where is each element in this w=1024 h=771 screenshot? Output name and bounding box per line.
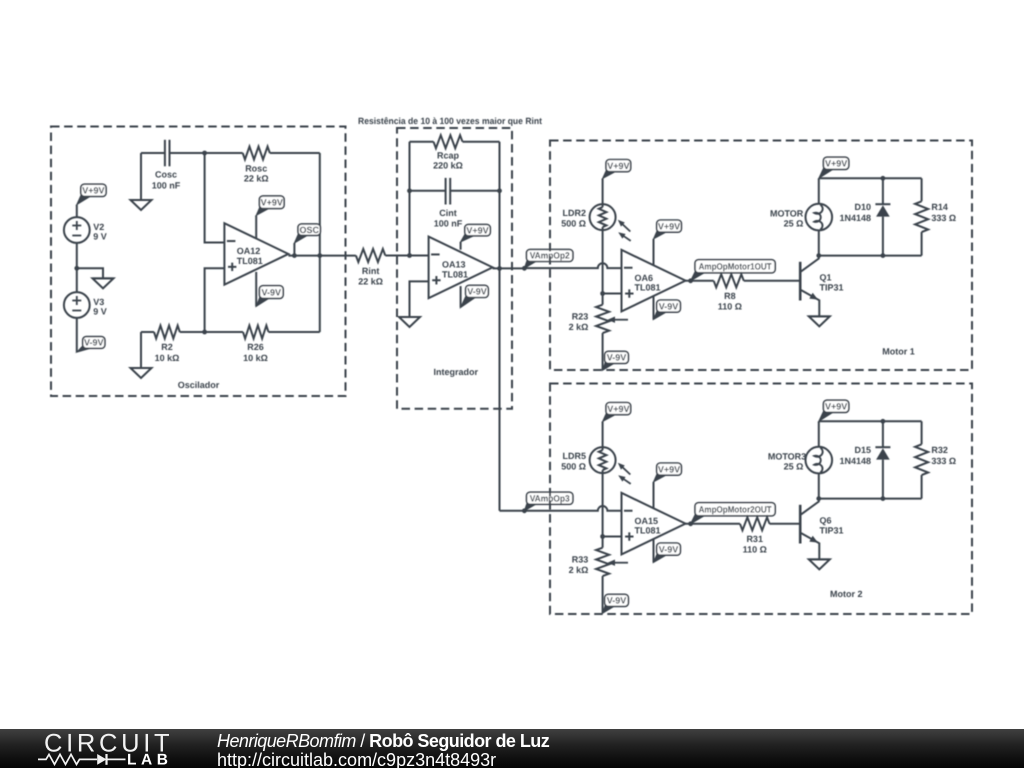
svg-text:R32: R32 <box>931 445 948 455</box>
svg-text:R8: R8 <box>724 291 736 301</box>
node junction <box>407 188 412 193</box>
svg-text:V-9V: V-9V <box>84 338 104 348</box>
svg-text:10 kΩ: 10 kΩ <box>155 353 180 363</box>
svg-text:V+9V: V+9V <box>82 186 104 196</box>
svg-text:LAB: LAB <box>127 752 173 769</box>
wire <box>76 318 78 352</box>
wire <box>140 153 142 200</box>
label D10 1N4148 <box>839 202 871 223</box>
wire <box>205 153 225 243</box>
svg-text:500 Ω: 500 Ω <box>561 461 586 471</box>
resistor Rint <box>356 249 385 262</box>
op-amp OA12 V- pin <box>255 272 257 307</box>
op-amp OA15 <box>622 493 686 555</box>
wire <box>602 576 604 613</box>
wire <box>921 475 923 499</box>
node junction <box>881 253 886 258</box>
net label V+9V (LDR5) <box>603 403 631 422</box>
svg-text:OA6: OA6 <box>635 273 654 283</box>
node junction <box>881 419 886 424</box>
op-amp OA13 V- pin <box>460 286 462 307</box>
capacitor Cosc <box>165 140 170 167</box>
motor MOTOR <box>806 204 833 231</box>
label R31 110 <box>743 534 767 554</box>
wire <box>141 331 154 333</box>
net label V-9V (OA6) <box>654 300 681 320</box>
net label V+9V (V2) <box>77 184 106 204</box>
svg-text:2 kΩ: 2 kΩ <box>569 322 589 332</box>
label Q6 TIP31 <box>820 515 844 535</box>
svg-text:V-9V: V-9V <box>607 353 627 363</box>
svg-text:1N4148: 1N4148 <box>839 213 871 223</box>
wire <box>602 422 604 448</box>
net label V+9V (motor2) <box>819 400 849 421</box>
wire <box>818 473 820 498</box>
node junction <box>522 508 527 513</box>
svg-text:V+9V: V+9V <box>658 221 680 231</box>
wire <box>385 255 428 257</box>
svg-text:R23: R23 <box>572 312 589 322</box>
node junction <box>407 253 412 258</box>
svg-text:V-9V: V-9V <box>262 287 282 297</box>
wire (down to motor2) <box>499 268 501 510</box>
svg-text:R14: R14 <box>931 202 948 212</box>
net label V+9V (OA13) <box>461 224 491 242</box>
wire <box>493 267 525 269</box>
wire <box>602 230 604 293</box>
label Motor 2 <box>830 589 863 599</box>
wire <box>270 152 320 154</box>
wire <box>818 178 820 204</box>
wire <box>602 473 604 536</box>
label Rcap 220k <box>433 150 463 170</box>
net label V-9V (V3) <box>77 337 105 353</box>
net label V-9V (OA15) <box>654 543 681 563</box>
net label V+9V (motor1) <box>819 157 849 178</box>
label LDR2 500 <box>561 208 586 228</box>
wire <box>818 421 820 447</box>
op-amp OA13 V+ pin <box>460 242 462 250</box>
svg-text:Rint: Rint <box>362 266 380 276</box>
wire <box>76 268 78 292</box>
wire <box>269 331 320 333</box>
svg-text:R2: R2 <box>161 342 173 352</box>
transistor Q6 TIP31 <box>800 499 819 560</box>
svg-text:D10: D10 <box>854 202 871 212</box>
label R26 10k <box>243 342 268 363</box>
wire <box>882 421 884 447</box>
wire (motor2 top rail) <box>819 420 922 422</box>
label R33 2k <box>569 555 589 575</box>
svg-text:110 Ω: 110 Ω <box>743 544 767 554</box>
svg-text:V+9V: V+9V <box>261 197 283 207</box>
svg-text:LDR2: LDR2 <box>562 208 586 218</box>
wire <box>744 280 799 282</box>
potentiometer R33 <box>596 548 609 576</box>
label Q1 TIP31 <box>820 272 844 292</box>
transistor Q1 TIP31 <box>800 256 819 317</box>
svg-text:OA12: OA12 <box>237 246 261 256</box>
svg-text:25 Ω: 25 Ω <box>784 219 804 229</box>
net label V+9V (OA12) <box>256 196 284 216</box>
op-amp OA13 <box>429 237 493 299</box>
motor MOTOR3 <box>806 447 833 474</box>
svg-text:Rosc: Rosc <box>245 163 267 173</box>
node junction <box>317 253 322 258</box>
svg-text:Motor 1: Motor 1 <box>882 346 915 356</box>
svg-text:R31: R31 <box>746 534 763 544</box>
wire <box>180 331 205 333</box>
svg-text:AmpOpMotor1OUT: AmpOpMotor1OUT <box>699 261 772 271</box>
svg-text:TL081: TL081 <box>237 256 263 266</box>
wire (VAmpOp3 net) <box>500 506 622 511</box>
label R23 2k <box>569 312 589 332</box>
svg-text:9 V: 9 V <box>93 306 107 316</box>
resistor R26 <box>243 326 268 339</box>
wire <box>319 256 321 332</box>
svg-text:OSC: OSC <box>299 225 319 235</box>
wire (VAmpOp2 net) <box>524 263 621 268</box>
label D15 1N4148 <box>839 445 871 466</box>
net label V+9V (OA15) <box>654 463 682 482</box>
svg-text:OA13: OA13 <box>442 260 466 270</box>
wire (right rail) <box>499 142 501 269</box>
potentiometer R23 <box>596 305 609 333</box>
label V2 9V <box>93 222 107 241</box>
node junction (OA13 out) <box>497 266 502 271</box>
wire <box>76 205 78 218</box>
svg-text:V-9V: V-9V <box>467 287 487 297</box>
net label AmpOpMotor2OUT <box>691 503 776 524</box>
potentiometer R33 arrow <box>608 560 629 566</box>
wire (motor2 bottom rail) <box>819 498 922 500</box>
net label V-9V (R23) <box>603 351 629 370</box>
wire <box>882 217 884 256</box>
ground (OA13 +) <box>399 317 420 327</box>
label Oscilador <box>178 380 220 390</box>
ground (Q6 emitter) <box>809 559 830 569</box>
motor1 block dashed box <box>550 141 972 371</box>
wire (OA15 out) <box>686 523 741 525</box>
wire <box>141 152 165 154</box>
label Cosc 100nF <box>152 170 181 191</box>
svg-text:Rcap: Rcap <box>437 150 460 160</box>
wire <box>921 421 923 444</box>
svg-text:MOTOR3: MOTOR3 <box>768 452 806 462</box>
wire <box>77 268 103 278</box>
svg-text:333 Ω: 333 Ω <box>931 456 956 466</box>
net label OSC <box>294 224 320 243</box>
node junction <box>688 521 693 526</box>
svg-text:Resistência de 10 à 100 vezes: Resistência de 10 à 100 vezes maior que … <box>358 116 542 126</box>
svg-text:22 kΩ: 22 kΩ <box>358 277 383 287</box>
CircuitLab logo resistor-diode glyph <box>38 754 97 764</box>
motor2 block dashed box <box>550 384 972 615</box>
net label V+9V (LDR2) <box>603 160 631 179</box>
svg-text:V-9V: V-9V <box>607 596 627 606</box>
ground (Q1 emitter) <box>809 316 830 326</box>
svg-text:500 Ω: 500 Ω <box>561 218 586 228</box>
svg-text:TIP31: TIP31 <box>820 526 844 536</box>
resistor R14 <box>915 201 928 232</box>
label Integrador <box>434 367 479 377</box>
svg-text:Motor 2: Motor 2 <box>830 589 863 599</box>
label Cint 100nF <box>434 208 463 228</box>
node junction <box>497 188 502 193</box>
label Rosc 22k <box>244 163 269 183</box>
wire (OA12 output) <box>288 255 356 257</box>
svg-text:AmpOpMotor2OUT: AmpOpMotor2OUT <box>699 504 772 514</box>
capacitor Cint <box>446 178 451 205</box>
voltage source V2 <box>64 217 90 243</box>
svg-text:100 nF: 100 nF <box>152 180 181 190</box>
node junction <box>881 496 886 501</box>
wire (OA13 + input) <box>410 281 429 317</box>
ground (R2) <box>131 368 152 378</box>
diode D15 1N4148 <box>875 447 890 459</box>
wire <box>602 537 604 548</box>
net label V-9V (OA13) <box>461 285 489 307</box>
net label V-9V (OA12) <box>256 286 283 307</box>
svg-text:V+9V: V+9V <box>607 161 629 171</box>
svg-text:100 nF: 100 nF <box>434 219 463 229</box>
wire (motor1 bottom rail) <box>819 255 922 257</box>
svg-text:22 kΩ: 22 kΩ <box>244 174 269 184</box>
resistor Rcap <box>434 135 463 148</box>
op-amp OA12 <box>224 223 288 285</box>
svg-text:LDR5: LDR5 <box>562 451 586 461</box>
svg-text:V+9V: V+9V <box>658 464 680 474</box>
label V3 9V <box>93 297 107 316</box>
svg-text:TIP31: TIP31 <box>820 283 844 293</box>
wire <box>463 141 500 143</box>
node junction <box>600 291 605 296</box>
resistor R2 <box>154 326 180 339</box>
svg-text:25 Ω: 25 Ω <box>784 462 804 472</box>
ground (Cosc) <box>131 200 152 210</box>
wire (left rail) <box>409 142 411 256</box>
node junction <box>292 253 297 258</box>
wire <box>410 141 434 143</box>
wire <box>602 179 604 205</box>
node junction <box>202 330 207 335</box>
wire <box>818 230 820 255</box>
node junction <box>688 278 693 283</box>
svg-text:V+9V: V+9V <box>607 404 629 414</box>
label R2 10k <box>155 342 180 363</box>
svg-text:MOTOR: MOTOR <box>770 209 804 219</box>
node junction <box>600 534 605 539</box>
wire (OSC stub) <box>293 243 295 256</box>
wire <box>602 294 604 305</box>
wire <box>770 523 800 525</box>
svg-text:OA15: OA15 <box>635 516 659 526</box>
svg-text:Integrador: Integrador <box>434 367 479 377</box>
svg-text:10 kΩ: 10 kΩ <box>243 353 268 363</box>
potentiometer R23 arrow <box>608 317 629 323</box>
svg-text:D15: D15 <box>854 445 871 455</box>
op-amp OA6 <box>622 250 686 312</box>
svg-text:Q1: Q1 <box>820 272 832 282</box>
resistor R31 <box>740 517 770 530</box>
label R8 110 <box>718 291 742 311</box>
label LDR5 500 <box>561 451 586 471</box>
svg-text:TL081: TL081 <box>442 269 468 279</box>
wire <box>882 178 884 204</box>
op-amp OA15 V- pin <box>653 538 655 562</box>
net label AmpOpMotor1OUT <box>691 260 776 281</box>
node junction <box>816 253 821 258</box>
wire (OA6 out) <box>686 280 714 282</box>
wire <box>205 152 243 154</box>
node junction <box>202 151 207 156</box>
node junction <box>74 266 79 271</box>
label R14 333 <box>931 202 956 223</box>
ground (between V2 V3) <box>93 278 114 288</box>
diode D10 1N4148 <box>875 204 890 216</box>
net label VAmpOp3 <box>524 492 573 511</box>
label Motor 1 <box>882 346 915 356</box>
op-amp OA12 V+ pin <box>255 215 257 239</box>
svg-text:2 kΩ: 2 kΩ <box>569 565 589 575</box>
wire <box>205 331 243 333</box>
node junction <box>816 496 821 501</box>
node junction <box>522 266 527 271</box>
svg-text:V-9V: V-9V <box>659 544 679 554</box>
label R32 333 <box>931 445 956 466</box>
svg-text:Oscilador: Oscilador <box>178 380 220 390</box>
voltage source V3 <box>64 292 90 318</box>
op-amp OA15 V+ pin <box>653 482 655 509</box>
wire <box>319 153 321 256</box>
svg-text:Cint: Cint <box>439 208 457 218</box>
wire <box>921 178 923 201</box>
wire <box>140 332 142 368</box>
op-amp OA6 V+ pin <box>653 239 655 266</box>
svg-text:V+9V: V+9V <box>825 159 847 169</box>
wire <box>921 232 923 256</box>
wire (motor1 top rail) <box>819 177 922 179</box>
resistor Rosc <box>243 147 270 160</box>
svg-text:Cosc: Cosc <box>155 170 177 180</box>
wire <box>205 268 225 332</box>
wire <box>76 243 78 268</box>
svg-text:Q6: Q6 <box>820 515 832 525</box>
resistor R32 <box>915 444 928 475</box>
svg-text:1N4148: 1N4148 <box>839 456 871 466</box>
wire <box>450 190 499 192</box>
op-amp OA6 V- pin <box>653 295 655 319</box>
wire (OA6 + input) <box>603 293 622 295</box>
photoresistor LDR5 <box>590 447 631 484</box>
wire <box>882 460 884 499</box>
net label V-9V (R33) <box>603 594 629 613</box>
svg-text:9 V: 9 V <box>93 231 107 241</box>
wire <box>410 190 446 192</box>
resistor R8 <box>714 274 744 287</box>
label Rint 22k <box>358 266 383 286</box>
net label VAmpOp2 <box>524 249 573 268</box>
svg-text:TL081: TL081 <box>635 525 661 535</box>
svg-text:V+9V: V+9V <box>825 402 847 412</box>
wire <box>170 152 205 154</box>
svg-text:V-9V: V-9V <box>659 301 679 311</box>
title note <box>358 116 542 126</box>
svg-text:V+9V: V+9V <box>466 225 488 235</box>
wire (OA15 + input) <box>603 536 622 538</box>
label MOTOR 25 <box>770 209 804 229</box>
svg-text:R26: R26 <box>247 342 264 352</box>
svg-text:110 Ω: 110 Ω <box>718 301 742 311</box>
svg-text:333 Ω: 333 Ω <box>931 213 956 223</box>
svg-text:TL081: TL081 <box>635 282 661 292</box>
node junction <box>881 176 886 181</box>
wire <box>602 333 604 370</box>
label MOTOR3 25 <box>768 452 806 472</box>
integrator block dashed box <box>397 128 512 409</box>
svg-text:220 kΩ: 220 kΩ <box>433 161 463 171</box>
photoresistor LDR2 <box>590 204 631 241</box>
net label V+9V (OA6) <box>654 220 682 239</box>
oscillator block dashed box <box>51 127 346 397</box>
svg-text:R33: R33 <box>572 555 589 565</box>
